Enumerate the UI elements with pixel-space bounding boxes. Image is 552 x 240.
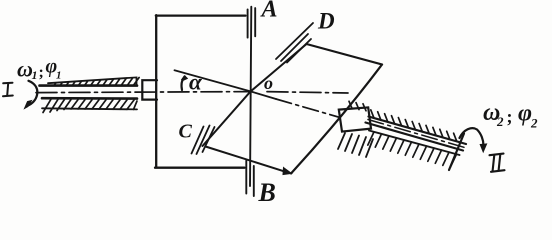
horizontal axis dash-dot right of O [267,92,348,93]
arrowhead of shaft I rotation arrow [25,101,32,109]
ground hatching above shaft I [54,78,139,86]
svg-text:2: 2 [496,114,504,129]
dense hatching below hub II [338,133,373,157]
right yoke plate: bottom edge with arrow end [206,147,287,172]
svg-text:;: ; [39,64,44,81]
hub connecting shaft I to left yoke [142,80,157,99]
left yoke frame rectangle [155,15,246,168]
shaft I top edge line [40,84,138,87]
svg-text:A: A [260,0,278,23]
svg-text:α: α [189,70,203,95]
ground hatching below shaft II [368,132,457,168]
svg-text:2: 2 [530,116,538,131]
hub connecting plate to shaft II [339,107,371,131]
svg-text:1: 1 [56,70,62,82]
right yoke plate: top edge [307,44,383,65]
ground line below shaft I [42,108,137,109]
right yoke plate: left edge (C-D line through O) [203,44,307,146]
svg-text:B: B [258,178,276,205]
ground hatch band above shaft I (boundary line) [48,77,137,85]
shaft I bottom edge line [42,97,137,100]
shaft II axis extension line through O (alpha reference) [175,70,277,99]
arrowhead at plate bottom corner [283,168,292,175]
label II (shaft II) [490,154,505,172]
angle alpha arc arrow [182,76,185,90]
arrowhead of alpha arc [182,76,188,81]
ground hatching below shaft I [43,99,137,112]
bearing marks at pivot D [276,23,313,63]
svg-text:C: C [179,121,193,143]
ground line below shaft II [369,131,460,156]
svg-text:1: 1 [32,68,38,82]
svg-text:φ: φ [518,101,532,127]
pivot A-B vertical line through center O [250,7,251,186]
bearing marks at pivot C [192,126,215,155]
svg-text:;: ; [507,107,513,127]
shaft II top edge line [369,117,467,145]
label I (shaft I) [3,83,13,97]
shaft I axis dash-dot centerline [36,92,251,93]
shaft II axis dash-dot (right of O) [276,99,340,118]
shaft II end cap line [449,134,464,171]
rotation arrow on shaft II [460,128,484,147]
bearing marks at pivot B [246,161,254,197]
right yoke plate: right edge [291,65,382,174]
shaft II axis dash-dot along shaft [368,120,464,148]
shaft II bottom edge line [366,123,464,151]
ground hatching above shaft II [349,101,457,141]
rotation arrow on shaft I [29,81,38,105]
bearing marks at pivot A [248,8,256,37]
svg-text:D: D [317,9,335,34]
arrowhead of shaft II rotation arrow [480,144,486,152]
